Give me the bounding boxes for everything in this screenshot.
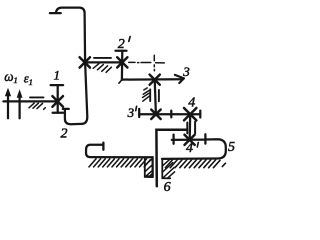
axis centerline horizontal (dash-dot): [129, 61, 165, 64]
svg-text:ω1: ω1: [4, 69, 18, 85]
svg-text:6: 6: [164, 180, 171, 192]
link 2 carrier (hook, vertical, U-bend): [50, 8, 87, 125]
mesh cross gear 3': [151, 110, 161, 120]
ground hatching left: [89, 159, 150, 167]
bearing on input shaft: [30, 96, 44, 98]
arrow omega1: [7, 95, 9, 118]
svg-text:3: 3: [182, 64, 190, 79]
bearing on shaft 3-3': [150, 89, 159, 101]
svg-text:3: 3: [127, 105, 135, 120]
gear line 3'-4: [139, 109, 200, 118]
shaft 4-4' vertical: [189, 114, 192, 140]
bearing on shaft 4-4': [187, 122, 195, 134]
slider guide block right: [162, 159, 174, 178]
mesh cross gear 2': [117, 57, 127, 67]
svg-text:2: 2: [61, 126, 68, 141]
gear 1: [51, 85, 64, 113]
mesh cross gear 3: [150, 75, 160, 85]
ground hatching right: [165, 160, 225, 168]
gear 4': [172, 134, 206, 144]
gear 3 line with leader arrow: [122, 78, 182, 81]
svg-text:ε1: ε1: [24, 72, 33, 87]
link 6 bracket and slider stem: [156, 130, 187, 187]
vertical shaft 3-3': [155, 80, 156, 115]
input shaft 1: [3, 100, 57, 102]
svg-text:5: 5: [228, 140, 235, 155]
mesh cross gear 4': [185, 135, 195, 145]
frame ground left with hook: [86, 143, 153, 177]
axis centerline vertical (dash-dot): [153, 55, 155, 70]
slider guide block left: [145, 158, 153, 178]
svg-text:4: 4: [188, 96, 195, 111]
mesh cross gear 4: [184, 108, 196, 120]
mesh cross on vertical shaft (gear 2 shaft): [80, 57, 90, 67]
gear 2': [116, 51, 127, 80]
mesh cross gear1-shaft: [52, 96, 63, 107]
shaft 2-2' horizontal: [85, 61, 123, 63]
arrow epsilon1: [18, 97, 20, 119]
link 5 frame loop: [162, 139, 226, 159]
bearing on shaft 2-2': [94, 57, 111, 59]
svg-text:1: 1: [54, 67, 61, 82]
svg-text:4: 4: [186, 141, 193, 156]
